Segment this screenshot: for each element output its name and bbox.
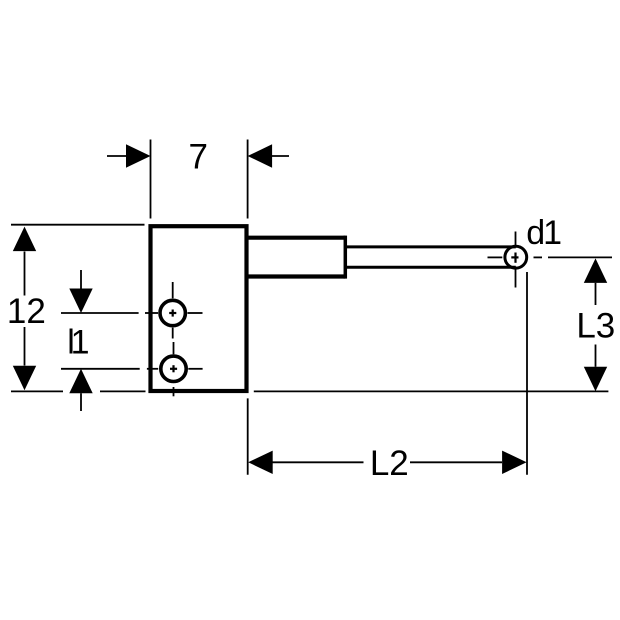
- svg-text:L2: L2: [370, 444, 409, 483]
- svg-text:12: 12: [7, 292, 46, 331]
- svg-text:L3: L3: [576, 306, 615, 345]
- svg-text:7: 7: [188, 138, 207, 177]
- svg-text:d1: d1: [526, 214, 562, 252]
- svg-text:l1: l1: [67, 323, 89, 361]
